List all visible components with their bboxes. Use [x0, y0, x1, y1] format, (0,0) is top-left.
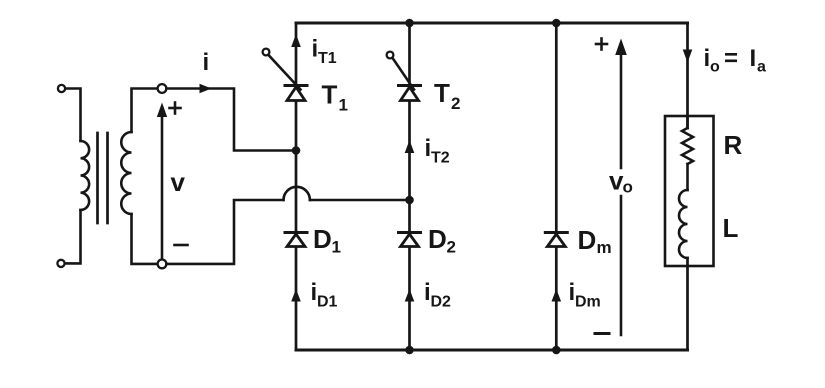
wire load branch bottom [686, 258, 689, 350]
svg-text:L: L [723, 213, 739, 243]
wire [310, 199, 410, 202]
transformer core [96, 133, 99, 223]
arrow iD2 [405, 289, 415, 302]
svg-text:Dm: Dm [575, 294, 601, 311]
svg-text:I: I [750, 45, 757, 72]
svg-text:o: o [623, 178, 633, 197]
arrow io downward [683, 50, 693, 63]
svg-text:1: 1 [332, 238, 341, 257]
wire [65, 210, 80, 263]
svg-text:i: i [203, 49, 210, 76]
diode Dm [545, 233, 567, 247]
arrow vo [620, 52, 623, 168]
svg-text:a: a [757, 59, 766, 76]
svg-text:D: D [428, 224, 447, 254]
resistor R [682, 128, 693, 164]
junction dot T1 branch mid [292, 146, 301, 155]
inductor L [679, 190, 688, 258]
arrow iT1 [291, 34, 301, 47]
svg-text:R: R [724, 130, 743, 160]
arrow v [161, 114, 164, 258]
junction dot T2 branch mid [405, 196, 414, 205]
thyristor T1 [263, 49, 307, 101]
node secondary top [158, 84, 167, 93]
wire [686, 164, 689, 190]
junction dot top Dm [552, 19, 561, 28]
minus sign left [175, 244, 188, 247]
transformer secondary winding [121, 132, 131, 214]
svg-text:D: D [578, 225, 597, 255]
transformer primary terminal top [58, 85, 65, 92]
wire T2/D2 branch [408, 23, 411, 350]
svg-text:2: 2 [451, 94, 460, 113]
minus sign right [595, 332, 609, 335]
bottom rail [296, 349, 688, 352]
plus sign right [596, 39, 607, 50]
arrow iT2 [405, 140, 415, 153]
wire [132, 89, 158, 133]
transformer primary terminal bottom [57, 260, 64, 267]
thyristor T2 [387, 52, 421, 101]
svg-text:T1: T1 [318, 50, 337, 67]
load box [665, 116, 714, 266]
wire Dm branch [555, 23, 558, 350]
svg-text:T: T [322, 80, 338, 110]
svg-text:m: m [597, 238, 612, 257]
svg-text:o: o [710, 59, 720, 76]
top rail [296, 22, 688, 25]
wire [132, 214, 158, 264]
arrow iD1 [291, 289, 301, 302]
svg-text:T: T [434, 78, 450, 108]
junction dot bottom D2 [405, 346, 414, 355]
junction dot top T2 [405, 19, 414, 28]
wire secondary bottom to T2 branch with hop [166, 200, 283, 264]
svg-text:D1: D1 [317, 294, 338, 311]
wire T1/D1 branch [295, 23, 298, 350]
wire [66, 89, 81, 142]
diode D2 [399, 233, 421, 247]
arrow i [200, 84, 212, 94]
junction dot bottom Dm [552, 346, 561, 355]
plus sign left [170, 103, 181, 114]
wire inside box [686, 116, 689, 128]
node secondary bottom [158, 260, 167, 269]
svg-text:D: D [313, 224, 332, 254]
arrow iDm [552, 289, 562, 302]
diode D1 [285, 233, 307, 247]
wire load branch top [686, 23, 689, 128]
transformer primary winding [81, 141, 90, 210]
svg-text:=: = [724, 45, 738, 72]
svg-text:1: 1 [339, 96, 348, 115]
svg-text:v: v [171, 167, 186, 197]
svg-text:D2: D2 [431, 294, 452, 311]
wire hop over T1 branch [284, 187, 310, 200]
svg-text:T2: T2 [431, 150, 450, 167]
svg-text:2: 2 [447, 238, 456, 257]
wire secondary top to T1 branch [166, 89, 293, 151]
